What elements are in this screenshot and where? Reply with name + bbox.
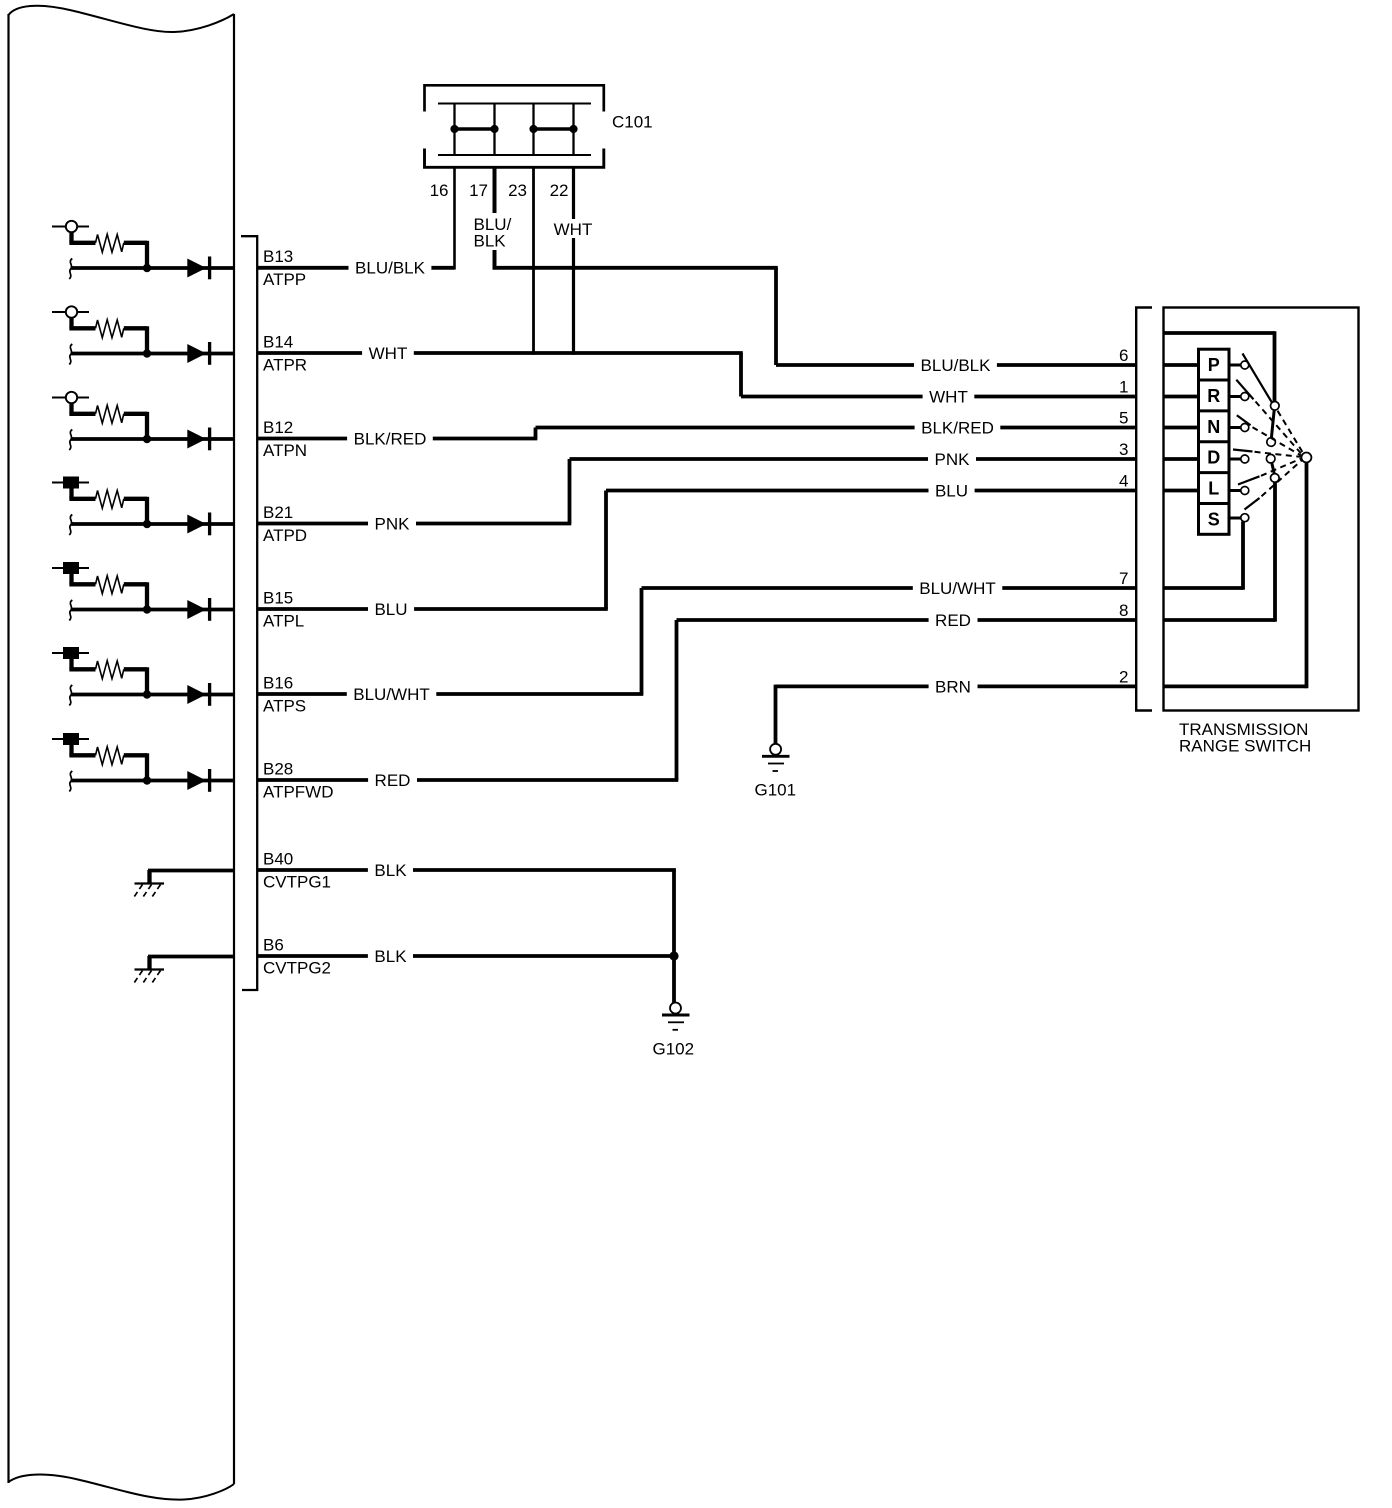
svg-text:C101: C101 [612,113,653,132]
svg-text:1: 1 [1119,378,1128,397]
wiper blade L [1238,476,1260,484]
svg-text:B21: B21 [263,503,293,522]
wire (pin 4 to L contact) [1165,489,1199,493]
svg-text:7: 7 [1119,569,1128,588]
svg-text:B16: B16 [263,674,293,693]
svg-text:S: S [1208,509,1220,529]
wire [69,232,73,243]
svg-text:17: 17 [469,181,488,200]
resistor (B14 circuit) [69,320,147,353]
svg-text:L: L [1208,479,1219,499]
wire (pin 6 to P contact) [1165,363,1199,367]
inner contact (upper junction) [1271,402,1280,411]
svg-text:PNK: PNK [935,450,971,469]
wire (junction link lower) [1272,463,1275,474]
switch pin 5 number [1119,409,1128,428]
wire (pin 7 to S contact) [1165,522,1244,590]
wire (C101 pin 23 drop) [532,167,535,355]
junction node (G102 wire) [669,951,678,960]
svg-text:ATPN: ATPN [263,441,307,460]
svg-text:BLK: BLK [374,947,407,966]
pin B15 label [263,589,304,631]
wire [148,869,234,873]
wire label WHT (pin 22) [549,219,597,239]
svg-text:5: 5 [1119,409,1128,428]
wiper blade N [1237,415,1251,425]
svg-text:P: P [1208,355,1220,375]
C101 reference label [612,113,653,132]
wire (C101 pin 22 drop) [572,167,575,355]
contact stub N [1229,426,1241,429]
svg-text:WHT: WHT [929,388,968,407]
diode (B14 circuit) [187,342,209,365]
switch pin 4 number [1119,472,1128,491]
svg-text:RED: RED [375,771,411,790]
wire BLK (B6 to G102) [257,947,674,966]
svg-text:B14: B14 [263,333,293,352]
diode (B16 circuit) [187,683,209,706]
indicator segment (B21 circuit) [52,477,89,489]
svg-text:BRN: BRN [935,677,971,696]
junction node (B16) [143,690,151,698]
diode (B13 circuit) [187,257,209,280]
inner contact c4 [1271,474,1280,483]
svg-text:BLU/BLK: BLU/BLK [355,259,426,278]
wire BLU/WHT (B16 to switch pin 7) [257,579,1135,704]
transmission range switch box [1164,308,1359,711]
svg-text:BLK/RED: BLK/RED [354,430,427,449]
wiper blade D [1233,450,1253,452]
wire (with break squiggle) [69,344,234,365]
svg-text:N: N [1207,417,1220,437]
svg-text:BLK: BLK [474,232,507,251]
svg-text:ATPR: ATPR [263,356,307,375]
wire (pin 8 to inner contact) [1165,482,1276,622]
svg-text:WHT: WHT [369,344,408,363]
wire BLU/BLK (C101 pin 17 to switch pin 6) [493,167,1136,375]
wire (with break squiggle) [69,771,234,792]
svg-text:G102: G102 [653,1040,695,1059]
contact R [1241,393,1249,401]
indicator segment (B28 circuit) [52,733,89,745]
svg-text:G101: G101 [755,781,797,800]
wire BRN (G101 to switch pin 2) [776,677,1136,743]
svg-text:CVTPG2: CVTPG2 [263,959,331,978]
C101 pin 23 number [508,181,527,200]
wiper travel dashed (P) [1278,411,1303,453]
wire (pin 5 to N contact) [1165,426,1199,430]
ground G102 [653,1003,695,1059]
svg-text:22: 22 [550,181,569,200]
svg-text:B40: B40 [263,850,293,869]
svg-text:BLK: BLK [374,861,407,880]
wire RED (B28 to switch pin 8) [257,611,1135,790]
junction node (B13) [143,264,151,272]
svg-text:6: 6 [1119,346,1128,365]
wire BLK (B40 to G102) [257,861,676,956]
wire (with break squiggle) [69,430,234,451]
svg-text:B28: B28 [263,760,293,779]
pin B21 label [263,503,307,545]
switch pin 3 number [1119,440,1128,459]
pin B16 label [263,674,306,716]
wire [69,574,73,585]
junction node (B15) [143,605,151,613]
svg-text:B6: B6 [263,936,284,955]
wire PNK (B21 to switch pin 3) [257,450,1135,534]
svg-text:ATPFWD: ATPFWD [263,783,334,802]
svg-text:16: 16 [430,181,449,200]
pin B14 label [263,333,307,375]
svg-text:ATPL: ATPL [263,612,304,631]
wiper pivot [1301,453,1311,463]
switch pin 1 number [1119,378,1128,397]
wire (with break squiggle) [69,685,234,706]
wire [69,659,73,670]
contact S [1241,514,1249,522]
contact D [1241,455,1249,463]
svg-text:BLU/WHT: BLU/WHT [353,685,430,704]
contact stub P [1229,364,1241,367]
junction node (B12) [143,435,151,443]
C101 pin 17 number [469,181,488,200]
pin B28 label [263,760,334,802]
svg-text:WHT: WHT [554,220,593,239]
svg-text:R: R [1207,386,1220,406]
wiper travel dashed (L) [1261,459,1301,476]
svg-text:B13: B13 [263,247,293,266]
svg-text:BLK/RED: BLK/RED [921,419,994,438]
wiper travel dashed (S) [1262,460,1302,496]
svg-text:D: D [1207,448,1220,468]
wire (C101 pin 16 drop) [453,167,456,270]
wire (pin 3 to D contact) [1165,457,1199,461]
pin B13 label [263,247,306,289]
C101 pin 22 number [550,181,569,200]
diode (B28 circuit) [187,769,209,792]
ground G101 [755,744,797,800]
wire [69,318,73,329]
wire (pin 1 to R contact) [1165,395,1199,399]
transmission range switch label [1179,720,1311,756]
wire label BLU/BLK (pin 17) [468,213,520,251]
pin B12 label [263,418,307,460]
wire BLU/BLK (B13 to C101 pin 16) [257,259,455,278]
wire (junction link) [1271,410,1274,438]
wiper travel dashed (N) [1253,427,1302,455]
C101 pin 16 number [430,181,449,200]
svg-text:B15: B15 [263,589,293,608]
inner contact c3 [1266,454,1275,463]
svg-text:ATPP: ATPP [263,270,306,289]
control module connector bracket [241,236,257,990]
switch pin 2 number [1119,667,1128,686]
chassis ground (B6) [133,956,164,985]
svg-text:BLU/WHT: BLU/WHT [919,579,996,598]
wiper blade R [1236,380,1253,400]
junction node (B14) [143,349,151,357]
indicator segment (B15 circuit) [52,562,89,574]
svg-text:BLU: BLU [935,482,968,501]
resistor (B21 circuit) [69,490,147,523]
contact P [1241,361,1249,369]
contact stub S [1229,517,1241,520]
resistor (B15 circuit) [69,576,147,609]
wire (with break squiggle) [69,259,234,280]
wire [69,403,73,414]
svg-text:RED: RED [935,611,971,630]
resistor (B13 circuit) [69,234,147,267]
connector C101 [425,85,604,167]
contact L [1241,487,1249,495]
junction node (B21) [143,520,151,528]
wire [69,745,73,756]
pin B6 label [263,936,331,978]
svg-text:4: 4 [1119,472,1128,491]
switch pin 7 number [1119,569,1128,588]
wire BLK/RED (B12 to switch pin 5) [257,419,1135,449]
wire (with break squiggle) [69,515,234,536]
C101 internal link pins 23-22 [529,125,577,133]
wiper blade P [1243,354,1272,403]
indicator lamp (B14 circuit) [52,306,89,317]
svg-text:23: 23 [508,181,527,200]
transmission range switch connector bracket [1136,308,1152,711]
svg-text:3: 3 [1119,440,1128,459]
chassis ground (B40) [133,870,164,899]
wire (top bus to inner contact) [1165,331,1275,402]
control module torn-page outline [9,6,235,1500]
svg-text:2: 2 [1119,667,1128,686]
indicator segment (B16 circuit) [52,647,89,659]
wire [148,955,234,959]
svg-text:B12: B12 [263,418,293,437]
diode (B12 circuit) [187,428,209,451]
svg-text:RANGE SWITCH: RANGE SWITCH [1179,737,1311,756]
svg-text:ATPS: ATPS [263,697,306,716]
svg-text:ATPD: ATPD [263,526,307,545]
wiper travel dashed (D) [1255,452,1301,457]
diode (B21 circuit) [187,513,209,536]
junction node (B28) [143,776,151,784]
switch pin 6 number [1119,346,1128,365]
wire BLU (B15 to switch pin 4) [257,482,1135,620]
resistor (B28 circuit) [69,747,147,780]
indicator lamp (B12 circuit) [52,392,89,403]
gear position gate P/R/N/D/L/S [1199,349,1230,534]
wire WHT (B14 to C101 pins 23/22 and switch pin 1) [257,344,1135,407]
diode (B15 circuit) [187,598,209,621]
wiper blade S [1245,498,1260,510]
contact N [1241,424,1249,432]
switch pin 8 number [1119,601,1128,620]
svg-text:BLU/BLK: BLU/BLK [921,356,992,375]
inner contact c2 [1267,438,1276,447]
svg-text:PNK: PNK [375,515,411,534]
wire (pin 2 to wiper pivot) [1165,462,1307,688]
wire [69,489,73,500]
resistor (B12 circuit) [69,405,147,438]
contact stub R [1229,395,1241,398]
wiper travel dashed (R) [1256,402,1302,455]
contact stub D [1229,458,1241,461]
wire (to G102) [672,956,676,1003]
svg-text:BLU: BLU [374,600,407,619]
indicator lamp (B13 circuit) [52,221,89,232]
svg-text:CVTPG1: CVTPG1 [263,873,331,892]
resistor (B16 circuit) [69,661,147,694]
C101 internal link pins 16-17 [450,125,498,133]
svg-text:8: 8 [1119,601,1128,620]
pin B40 label [263,850,331,892]
contact stub L [1229,489,1241,492]
wire (with break squiggle) [69,600,234,621]
